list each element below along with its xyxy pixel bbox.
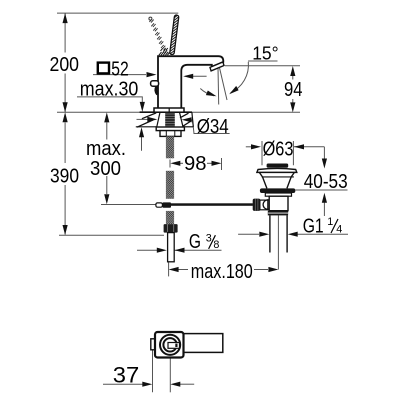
svg-text:8: 8	[213, 239, 219, 251]
svg-text:G1: G1	[303, 216, 324, 238]
svg-text:max.180: max.180	[191, 261, 253, 283]
svg-text:max.30: max.30	[80, 79, 139, 101]
svg-text:390: 390	[50, 165, 79, 187]
svg-text:Ø34: Ø34	[197, 116, 229, 138]
svg-text:200: 200	[50, 54, 80, 76]
svg-text:3: 3	[206, 233, 212, 245]
svg-text:37: 37	[113, 363, 140, 388]
svg-text:15°: 15°	[252, 43, 279, 64]
svg-text:300: 300	[90, 158, 121, 180]
svg-text:40-53: 40-53	[304, 171, 348, 193]
svg-text:52: 52	[111, 58, 129, 80]
svg-text:94: 94	[284, 79, 303, 101]
svg-text:Ø63: Ø63	[263, 139, 294, 161]
svg-text:G: G	[189, 231, 201, 253]
svg-text:98: 98	[184, 153, 207, 175]
svg-text:max.: max.	[86, 138, 126, 160]
svg-text:4: 4	[336, 224, 342, 236]
svg-text:1: 1	[327, 216, 333, 228]
